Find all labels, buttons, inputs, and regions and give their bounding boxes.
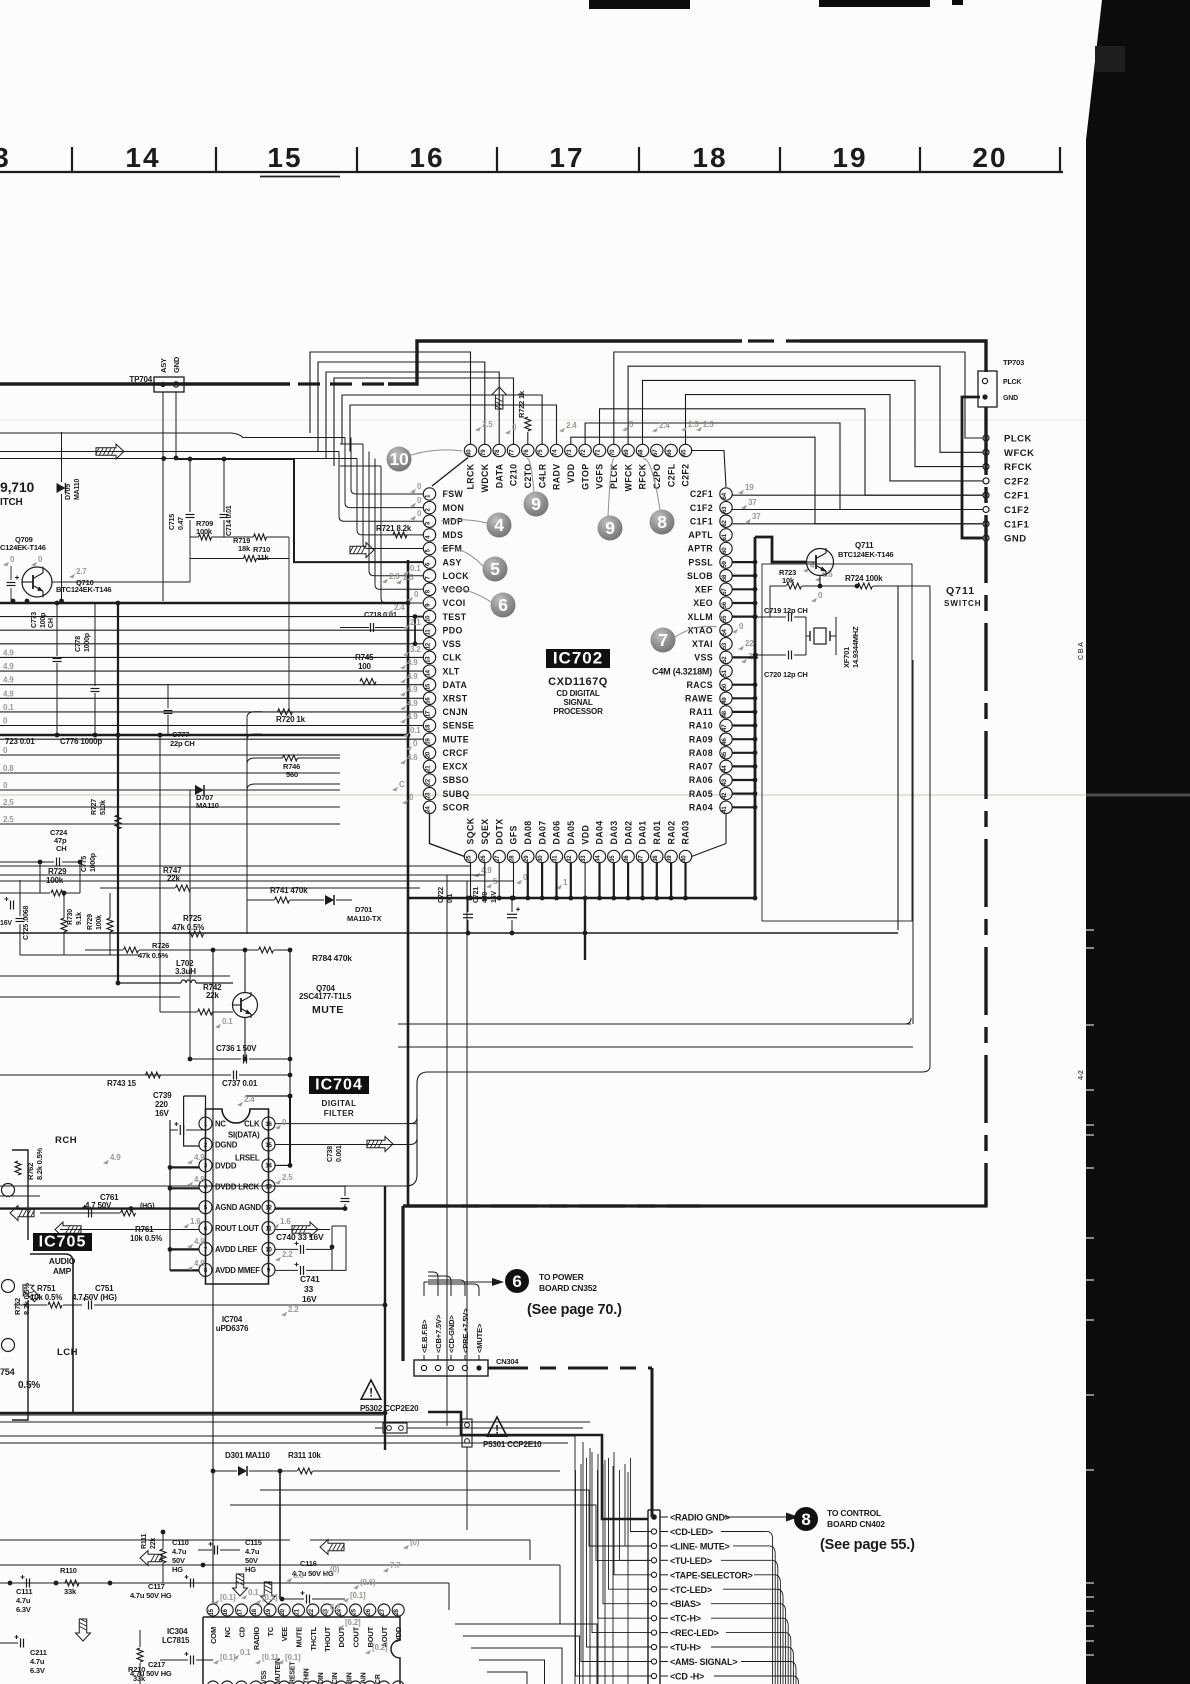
svg-text:[0.1]: [0.1] (262, 1653, 278, 1662)
svg-text:18: 18 (426, 724, 432, 731)
svg-text:22: 22 (426, 778, 432, 785)
svg-text:IC304: IC304 (167, 1627, 188, 1636)
svg-text:R110: R110 (60, 1566, 77, 1575)
capacitor C115 (245, 1538, 262, 1574)
svg-text:41: 41 (722, 806, 728, 813)
svg-text:74: 74 (553, 449, 559, 456)
resistor R726 47k (85, 941, 213, 960)
signal arrow EFM (350, 543, 375, 558)
Q711 switch label (944, 585, 982, 608)
svg-text:CD DIGITAL: CD DIGITAL (556, 689, 599, 698)
resistor R743 15 (107, 1072, 161, 1088)
wire bottom pin bus (408, 863, 757, 901)
svg-text:C B A: C B A (1078, 642, 1085, 660)
svg-text:17: 17 (426, 710, 432, 717)
svg-text:<TC-LED>: <TC-LED> (670, 1585, 712, 1595)
svg-text:24: 24 (426, 806, 432, 813)
wire x913 down (912, 660, 914, 1024)
svg-text:36: 36 (624, 855, 630, 862)
svg-text:77: 77 (510, 449, 516, 456)
transistor Q711 (807, 548, 834, 576)
wires SQCK SQEX GFS left (0, 863, 514, 881)
svg-text:<TC-H>: <TC-H> (670, 1614, 701, 1624)
resistor R111 22k (141, 1530, 166, 1583)
svg-text:C736 1 50V: C736 1 50V (216, 1044, 257, 1053)
svg-text:R730: R730 (67, 909, 74, 925)
svg-text:0.001: 0.001 (336, 1145, 343, 1162)
svg-text:R745: R745 (355, 653, 374, 662)
svg-text:8: 8 (801, 1510, 810, 1529)
svg-text:P5302 CCP2E20: P5302 CCP2E20 (360, 1404, 419, 1413)
resistor R727 510k (91, 790, 121, 845)
svg-text:DATA: DATA (443, 680, 468, 690)
wires mid-left band (0, 648, 340, 824)
svg-text:13: 13 (265, 1185, 272, 1191)
svg-text:16: 16 (409, 142, 444, 173)
svg-text:C217: C217 (148, 1660, 165, 1669)
svg-text:15: 15 (426, 683, 432, 690)
svg-text:0.1: 0.1 (3, 703, 14, 712)
svg-text:4.9: 4.9 (3, 662, 14, 671)
svg-text:R729: R729 (48, 867, 67, 876)
resistor R725 47k (172, 914, 204, 937)
svg-text:HG: HG (172, 1565, 183, 1574)
svg-text:12: 12 (265, 1206, 272, 1212)
svg-text:RACS: RACS (686, 680, 713, 690)
ruler numbers (0, 142, 1008, 173)
svg-text:VSS: VSS (443, 639, 462, 649)
svg-text:R751: R751 (37, 1284, 56, 1293)
svg-text:C738: C738 (327, 1146, 334, 1162)
svg-text:78: 78 (495, 449, 501, 456)
svg-text:16: 16 (426, 697, 432, 704)
svg-text:TEST: TEST (443, 612, 467, 622)
svg-text:43: 43 (722, 778, 728, 785)
svg-text:<REC-LED>: <REC-LED> (670, 1628, 719, 1638)
wire thick left cluster (0, 601, 408, 983)
svg-text:15: 15 (267, 142, 302, 173)
wires into CN402 pins (576, 1452, 652, 1676)
callout ball 5 (441, 548, 508, 582)
wire mute vertical x213 (212, 950, 214, 1603)
IC704 sublabel (322, 1099, 357, 1118)
svg-text:33: 33 (304, 1284, 314, 1294)
resistor R784 470k (211, 947, 353, 963)
svg-text:4.9: 4.9 (407, 712, 418, 721)
svg-text:RADIO: RADIO (252, 1627, 261, 1651)
svg-text:20: 20 (426, 751, 432, 758)
svg-text:0.1: 0.1 (410, 564, 421, 573)
svg-text:2.5: 2.5 (703, 420, 714, 429)
capacitor C761 (83, 1193, 155, 1218)
svg-text:LC7815: LC7815 (162, 1636, 190, 1645)
svg-text:4.9: 4.9 (407, 672, 418, 681)
capacitor C739 220 16V (153, 1091, 205, 1135)
svg-text:4.9: 4.9 (3, 648, 14, 657)
svg-text:19: 19 (266, 1608, 272, 1615)
wire y451 arrow (96, 444, 125, 459)
svg-text:CRCF: CRCF (443, 748, 469, 758)
svg-text:C1F1: C1F1 (690, 516, 713, 526)
svg-text:35: 35 (610, 855, 616, 862)
svg-text:C2TO: C2TO (523, 464, 533, 489)
scan top strips (589, 0, 690, 9)
resistor R730 9.1k (61, 891, 83, 955)
svg-text:LCH: LCH (57, 1347, 78, 1358)
resistors R723 R724 (770, 568, 930, 617)
capacitor C740 33 16V (275, 1232, 334, 1254)
wire misc bottom (0, 1540, 530, 1560)
capacitor C714 0.01 (212, 458, 234, 537)
svg-text:6.3V: 6.3V (16, 1605, 31, 1614)
diode D701 MA110-TX (298, 895, 381, 923)
svg-text:DA07: DA07 (537, 820, 547, 844)
svg-text:1.6: 1.6 (190, 1217, 201, 1226)
svg-text:NC: NC (215, 1120, 226, 1129)
svg-text:49: 49 (722, 697, 728, 704)
svg-text:6.3V: 6.3V (30, 1666, 45, 1675)
inductor L702 3.3uH (116, 959, 233, 985)
svg-text:69: 69 (624, 449, 630, 456)
svg-text:2.7: 2.7 (76, 567, 87, 576)
svg-text:52: 52 (722, 656, 728, 663)
svg-text:XLT: XLT (443, 666, 460, 676)
svg-text:C720 12p CH: C720 12p CH (764, 670, 808, 679)
svg-text:R762: R762 (26, 1163, 35, 1180)
diode D301 MA110 (211, 1451, 560, 1476)
svg-text:8.2k 0.5%: 8.2k 0.5% (35, 1147, 44, 1180)
svg-text:APTL: APTL (688, 530, 713, 540)
svg-text:9,710: 9,710 (0, 479, 34, 495)
hollow arrow down1 (76, 1619, 91, 1642)
svg-text:GND: GND (1004, 534, 1027, 545)
heavy boundary wire top-left (0, 382, 290, 385)
capacitor C117 (130, 1575, 194, 1600)
svg-text:0.47: 0.47 (178, 517, 185, 530)
svg-text:37: 37 (639, 855, 645, 862)
hollow arrow left1 (140, 1551, 163, 1566)
svg-text:P5301 CCP2E10: P5301 CCP2E10 (483, 1440, 542, 1449)
gray annots IC304 (213, 1538, 420, 1664)
svg-text:C741: C741 (300, 1274, 320, 1284)
signal arrow SI (367, 1137, 394, 1152)
svg-text:AMP: AMP (53, 1266, 72, 1276)
svg-text:2.1: 2.1 (410, 618, 421, 627)
svg-text:R752: R752 (13, 1298, 22, 1315)
resistor R721 8.2k (376, 524, 412, 538)
svg-text:TP703: TP703 (1003, 358, 1024, 367)
svg-text:1.6: 1.6 (280, 1217, 291, 1226)
svg-text:ASY: ASY (159, 358, 168, 373)
svg-text:IC705: IC705 (39, 1234, 87, 1251)
resistor R747 22k (100, 866, 420, 891)
svg-text:9: 9 (605, 518, 615, 538)
svg-text:76: 76 (524, 449, 530, 456)
wire bus y1422 (0, 1421, 590, 1423)
svg-text:R743 15: R743 15 (107, 1079, 137, 1088)
svg-text:!: ! (369, 1386, 373, 1400)
callout ball 8 (643, 459, 675, 535)
svg-text:RA10: RA10 (689, 721, 713, 731)
svg-text:RA05: RA05 (689, 789, 713, 799)
svg-text:4.9: 4.9 (194, 1237, 205, 1246)
wire x930 down (922, 586, 930, 1072)
svg-text:45: 45 (722, 751, 728, 758)
svg-text:C117: C117 (148, 1582, 165, 1591)
svg-text:68: 68 (639, 449, 645, 456)
svg-text:9.1k: 9.1k (76, 912, 83, 925)
svg-text:(0): (0) (410, 1538, 420, 1547)
svg-text:<CD-GND>: <CD-GND> (447, 1315, 456, 1353)
svg-text:18: 18 (692, 142, 727, 173)
wire bus y1429 (0, 1428, 583, 1429)
svg-text:MA110: MA110 (196, 801, 219, 810)
svg-text:7.7: 7.7 (390, 1561, 401, 1570)
svg-text:PLCK: PLCK (1004, 434, 1032, 445)
capacitor C725 0068 (16, 880, 31, 955)
callout ball 9 left (524, 459, 549, 517)
capacitor C211 (0, 1635, 47, 1675)
svg-text:TO CONTROL: TO CONTROL (827, 1508, 881, 1518)
svg-text:DA02: DA02 (623, 820, 633, 844)
svg-text:NC: NC (223, 1626, 232, 1637)
svg-text:1000p: 1000p (84, 633, 91, 652)
resistor R729 100k (40, 862, 80, 896)
svg-text:44: 44 (722, 765, 728, 772)
svg-text:SWITCH: SWITCH (944, 599, 982, 608)
svg-text:PROCESSOR: PROCESSOR (553, 707, 603, 716)
svg-text:13: 13 (426, 656, 432, 663)
wire GND terminal (962, 537, 983, 540)
label Q709-710 switch (0, 479, 34, 508)
warning P5302 (360, 1380, 419, 1413)
svg-text:C111: C111 (16, 1587, 32, 1596)
svg-text:16V: 16V (302, 1294, 317, 1304)
svg-text:8: 8 (657, 512, 667, 532)
capacitor C111 (8, 1575, 33, 1614)
signal terminals PLCK..GND (983, 434, 1035, 545)
resistor R761 (40, 1210, 205, 1243)
svg-text:27: 27 (495, 855, 501, 862)
svg-text:XEO: XEO (693, 598, 713, 608)
IC705 outline partial (12, 1150, 73, 1420)
svg-text:723 0.01: 723 0.01 (5, 737, 35, 746)
svg-text:RA07: RA07 (689, 762, 713, 772)
svg-text:(0): (0) (330, 1565, 340, 1574)
svg-text:2.3: 2.3 (389, 572, 400, 581)
wire y458 dots (161, 456, 226, 461)
heavy boundary to TP703 (800, 341, 986, 372)
svg-text:LRCK: LRCK (466, 463, 476, 489)
resistor R752 (13, 1280, 43, 1315)
C4M crystal freq label (652, 667, 712, 677)
svg-text:38: 38 (653, 855, 659, 862)
svg-text:AVDD MMEF: AVDD MMEF (215, 1266, 260, 1275)
svg-text:RFCK: RFCK (1004, 462, 1032, 473)
svg-text:0.8: 0.8 (3, 764, 14, 773)
connector CN304 (414, 1357, 519, 1376)
svg-text:TP704: TP704 (129, 375, 152, 384)
svg-text:10: 10 (426, 615, 432, 622)
wire verticals x447 x467 (447, 875, 467, 1426)
svg-text:4: 4 (494, 515, 504, 535)
svg-text:[6.2]: [6.2] (345, 1618, 361, 1627)
svg-text:50V: 50V (172, 1556, 185, 1565)
svg-text:12: 12 (426, 642, 432, 649)
wire data bus rounded corner (0, 1072, 922, 1186)
svg-text:50V: 50V (245, 1556, 258, 1565)
svg-text:SI(DATA): SI(DATA) (228, 1131, 260, 1140)
IC IC304 LC7815 (162, 1604, 404, 1684)
svg-text:0.1: 0.1 (240, 1648, 251, 1657)
connector CN402 column (648, 1510, 753, 1684)
svg-text:XF701: XF701 (842, 647, 851, 668)
callout ball 9 right (598, 459, 623, 541)
resistor R719 18k (52, 536, 289, 711)
svg-text:2.4: 2.4 (394, 603, 405, 612)
svg-text:14: 14 (125, 142, 160, 173)
svg-text:4.9: 4.9 (194, 1175, 205, 1184)
capacitor C778 1000p (75, 603, 100, 737)
hatch arrow RCH (10, 1206, 35, 1221)
svg-text:RA09: RA09 (689, 734, 713, 744)
svg-text:MDS: MDS (443, 530, 464, 540)
svg-text:(See page 70.): (See page 70.) (527, 1302, 622, 1318)
svg-text:DIGITAL: DIGITAL (322, 1099, 357, 1108)
wire NC DGND loop (184, 1096, 206, 1146)
svg-text:26: 26 (481, 855, 487, 862)
heavy boundary horizontal dashed (403, 1205, 986, 1207)
wire lower-left links (0, 862, 230, 997)
wires top pins to right terminals (571, 352, 983, 524)
svg-text:23: 23 (426, 792, 432, 799)
svg-text:C775: C775 (81, 856, 88, 872)
svg-text:64: 64 (722, 492, 728, 499)
svg-text:6: 6 (498, 595, 508, 615)
svg-text:GFS: GFS (509, 825, 519, 844)
svg-text:C2F1: C2F1 (1004, 491, 1029, 502)
resistor R720 1k (276, 709, 306, 724)
svg-text:16: 16 (265, 1122, 272, 1128)
svg-text:71: 71 (596, 449, 602, 456)
svg-text:WFCK: WFCK (1004, 448, 1035, 459)
wire VDD drop (583, 898, 588, 960)
svg-text:4.9: 4.9 (3, 689, 14, 698)
wire LRSEL right (246, 1094, 293, 1168)
svg-text:22: 22 (309, 1608, 315, 1615)
svg-text:22k: 22k (150, 1538, 157, 1549)
svg-text:IC704: IC704 (222, 1315, 243, 1324)
callout ball 4 (441, 513, 512, 538)
svg-text:53: 53 (722, 642, 728, 649)
svg-text:100: 100 (358, 662, 371, 671)
svg-text:VCOO: VCOO (443, 585, 471, 595)
capacitor C110 (172, 1538, 240, 1574)
svg-text:19: 19 (426, 738, 432, 745)
svg-text:<TU-LED>: <TU-LED> (670, 1556, 712, 1566)
IC702 label box (546, 649, 610, 669)
capacitor C116 (280, 1559, 345, 1604)
transistor Q710 (0, 535, 111, 598)
wire y1024 data line (398, 1018, 911, 1024)
wire y1047 data line (398, 1046, 913, 1048)
capacitor C724 47p (38, 828, 83, 867)
svg-text:DA06: DA06 (552, 820, 562, 844)
svg-text:56: 56 (722, 601, 728, 608)
resistor R710 11k (224, 534, 289, 562)
svg-text:<CD-LED>: <CD-LED> (670, 1527, 713, 1537)
svg-text:MUTE: MUTE (312, 1004, 344, 1016)
svg-text:16V: 16V (491, 891, 498, 903)
svg-text:<PRE.+7.5V>: <PRE.+7.5V> (461, 1308, 470, 1353)
wire C740 box (332, 1226, 346, 1270)
svg-text:C719 12p CH: C719 12p CH (764, 606, 808, 615)
svg-text:15: 15 (265, 1143, 272, 1149)
svg-text:75: 75 (538, 449, 544, 456)
svg-text:C714 0.01: C714 0.01 (226, 505, 233, 536)
callout ball 10 (387, 447, 463, 472)
wire TP704 drops (163, 392, 178, 601)
svg-text:17: 17 (549, 142, 584, 173)
svg-text:EXCX: EXCX (443, 762, 469, 772)
capacitor C775 1000p (0, 0, 1, 1)
svg-text:C777: C777 (172, 730, 189, 739)
svg-text:17: 17 (238, 1608, 244, 1615)
svg-text:D301 MA110: D301 MA110 (225, 1451, 270, 1460)
heavy boundary down to CN304 (401, 1206, 404, 1361)
svg-text:0.5%: 0.5% (18, 1380, 40, 1391)
svg-text:72: 72 (581, 449, 587, 456)
svg-text:11: 11 (266, 1226, 273, 1232)
svg-text:4.9: 4.9 (407, 699, 418, 708)
svg-text:C2F2: C2F2 (1004, 476, 1029, 487)
svg-text:2.5: 2.5 (3, 798, 14, 807)
svg-text:DOUT: DOUT (337, 1626, 346, 1647)
svg-text:6.2: 6.2 (330, 1603, 341, 1612)
svg-text:560: 560 (286, 770, 298, 779)
svg-text:PDO: PDO (443, 625, 463, 635)
svg-text:22p CH: 22p CH (170, 739, 195, 748)
svg-text:VDD: VDD (394, 1626, 403, 1642)
wire y1583 (0, 1583, 449, 1610)
svg-text:2.2: 2.2 (288, 1305, 299, 1314)
svg-text:58: 58 (722, 574, 728, 581)
svg-text:R726: R726 (152, 941, 169, 950)
svg-text:R761: R761 (135, 1225, 154, 1234)
wire radio gnd arrow (724, 1513, 799, 1522)
svg-text:25: 25 (352, 1608, 358, 1615)
svg-text:15: 15 (209, 1608, 215, 1615)
svg-text:10: 10 (265, 1247, 272, 1253)
heavy boundary wire dashes (298, 382, 388, 385)
svg-text:DA08: DA08 (523, 820, 533, 844)
svg-text:57: 57 (722, 588, 728, 595)
svg-text:100k: 100k (96, 915, 103, 930)
label C723 (5, 737, 35, 746)
resistor R728 100k (87, 893, 113, 955)
svg-text:DA03: DA03 (609, 820, 619, 844)
svg-text:(See page 55.): (See page 55.) (820, 1537, 915, 1553)
svg-text:<LINE- MUTE>: <LINE- MUTE> (670, 1541, 730, 1551)
svg-text:TC: TC (266, 1626, 275, 1636)
svg-text:47: 47 (722, 724, 728, 731)
svg-text:MON: MON (443, 503, 465, 513)
wire feeder y1505 (230, 1505, 651, 1560)
svg-text:GND: GND (1003, 395, 1018, 402)
svg-text:FSW: FSW (443, 489, 464, 499)
svg-text:<TAPE-SELECTOR>: <TAPE-SELECTOR> (670, 1570, 753, 1580)
svg-text:59: 59 (722, 560, 728, 567)
